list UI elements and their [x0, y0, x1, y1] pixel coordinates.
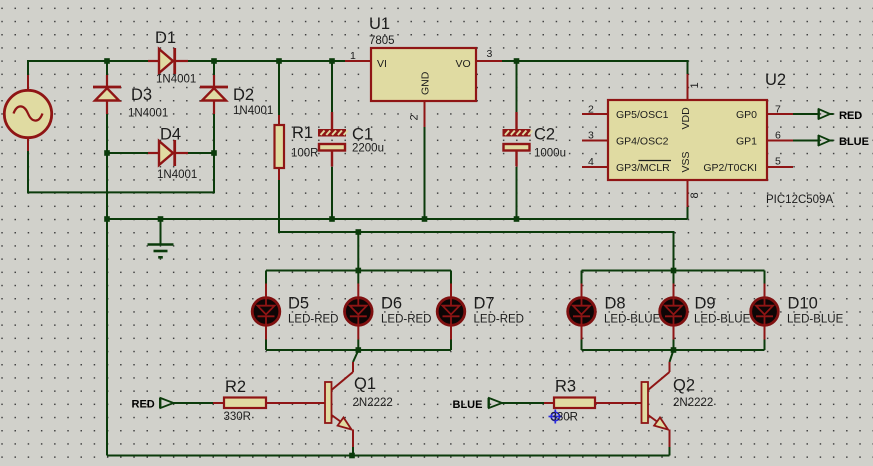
svg-text:D8: D8 — [605, 295, 626, 313]
svg-text:RED: RED — [132, 399, 155, 411]
svg-text:1N4001: 1N4001 — [156, 74, 196, 86]
svg-text:6: 6 — [775, 130, 781, 142]
svg-text:D6: D6 — [381, 295, 402, 313]
svg-text:Q1: Q1 — [354, 375, 376, 393]
svg-text:GP1: GP1 — [736, 136, 757, 148]
svg-text:330R: 330R — [551, 412, 579, 424]
svg-text:VO: VO — [456, 58, 471, 70]
svg-text:1N4001: 1N4001 — [233, 105, 273, 117]
svg-text:7: 7 — [775, 104, 781, 116]
svg-text:GP0: GP0 — [736, 109, 757, 121]
svg-text:GP2/T0CKI: GP2/T0CKI — [703, 162, 757, 174]
svg-text:100R: 100R — [291, 148, 319, 160]
svg-text:BLUE: BLUE — [839, 136, 869, 148]
svg-text:C1: C1 — [352, 126, 373, 144]
svg-text:LED-RED: LED-RED — [288, 314, 338, 326]
svg-text:1000u: 1000u — [534, 148, 566, 160]
svg-text:D5: D5 — [288, 295, 309, 313]
svg-text:VSS: VSS — [680, 151, 692, 172]
svg-text:VDD: VDD — [680, 107, 692, 130]
svg-text:D10: D10 — [788, 295, 818, 313]
svg-text:LED-RED: LED-RED — [381, 314, 431, 326]
svg-text:1N4001: 1N4001 — [128, 108, 168, 120]
svg-text:D3: D3 — [131, 86, 152, 104]
svg-text:D7: D7 — [474, 295, 495, 313]
svg-text:GND: GND — [420, 71, 432, 95]
svg-text:2200u: 2200u — [352, 143, 384, 155]
svg-text:3: 3 — [487, 48, 493, 60]
svg-text:1N4001: 1N4001 — [157, 169, 197, 181]
svg-text:2: 2 — [588, 104, 594, 116]
svg-text:D2: D2 — [233, 86, 254, 104]
svg-text:5: 5 — [775, 156, 781, 168]
svg-text:U2: U2 — [765, 71, 786, 89]
svg-text:2N2222: 2N2222 — [673, 397, 713, 409]
svg-text:R2: R2 — [225, 378, 246, 396]
svg-text:R3: R3 — [555, 378, 576, 396]
svg-text:GP3/MCLR: GP3/MCLR — [616, 162, 670, 174]
svg-text:D4: D4 — [160, 126, 181, 144]
svg-text:PIC12C509A: PIC12C509A — [766, 194, 833, 206]
svg-text:GP5/OSC1: GP5/OSC1 — [616, 109, 669, 121]
svg-text:VI: VI — [377, 58, 387, 70]
svg-text:D1: D1 — [155, 29, 176, 47]
svg-text:3: 3 — [588, 130, 594, 142]
svg-text:Q2: Q2 — [673, 377, 695, 395]
svg-text:LED-BLUE: LED-BLUE — [787, 314, 844, 326]
svg-text:BLUE: BLUE — [453, 399, 483, 411]
svg-text:LED-BLUE: LED-BLUE — [604, 314, 661, 326]
svg-text:2: 2 — [409, 114, 421, 120]
svg-text:2N2222: 2N2222 — [353, 397, 393, 409]
svg-text:RED: RED — [839, 110, 862, 122]
svg-text:4: 4 — [588, 156, 594, 168]
svg-text:8: 8 — [689, 192, 701, 198]
svg-text:U1: U1 — [369, 15, 390, 33]
svg-text:GP4/OSC2: GP4/OSC2 — [616, 136, 669, 148]
svg-text:D9: D9 — [695, 295, 716, 313]
svg-text:LED-BLUE: LED-BLUE — [694, 314, 751, 326]
svg-text:7805: 7805 — [369, 35, 395, 47]
svg-text:1: 1 — [350, 50, 356, 62]
svg-text:1: 1 — [689, 82, 701, 88]
svg-text:R1: R1 — [292, 124, 313, 142]
svg-text:330R: 330R — [224, 411, 252, 423]
svg-text:C2: C2 — [534, 126, 555, 144]
svg-text:LED-RED: LED-RED — [474, 314, 524, 326]
